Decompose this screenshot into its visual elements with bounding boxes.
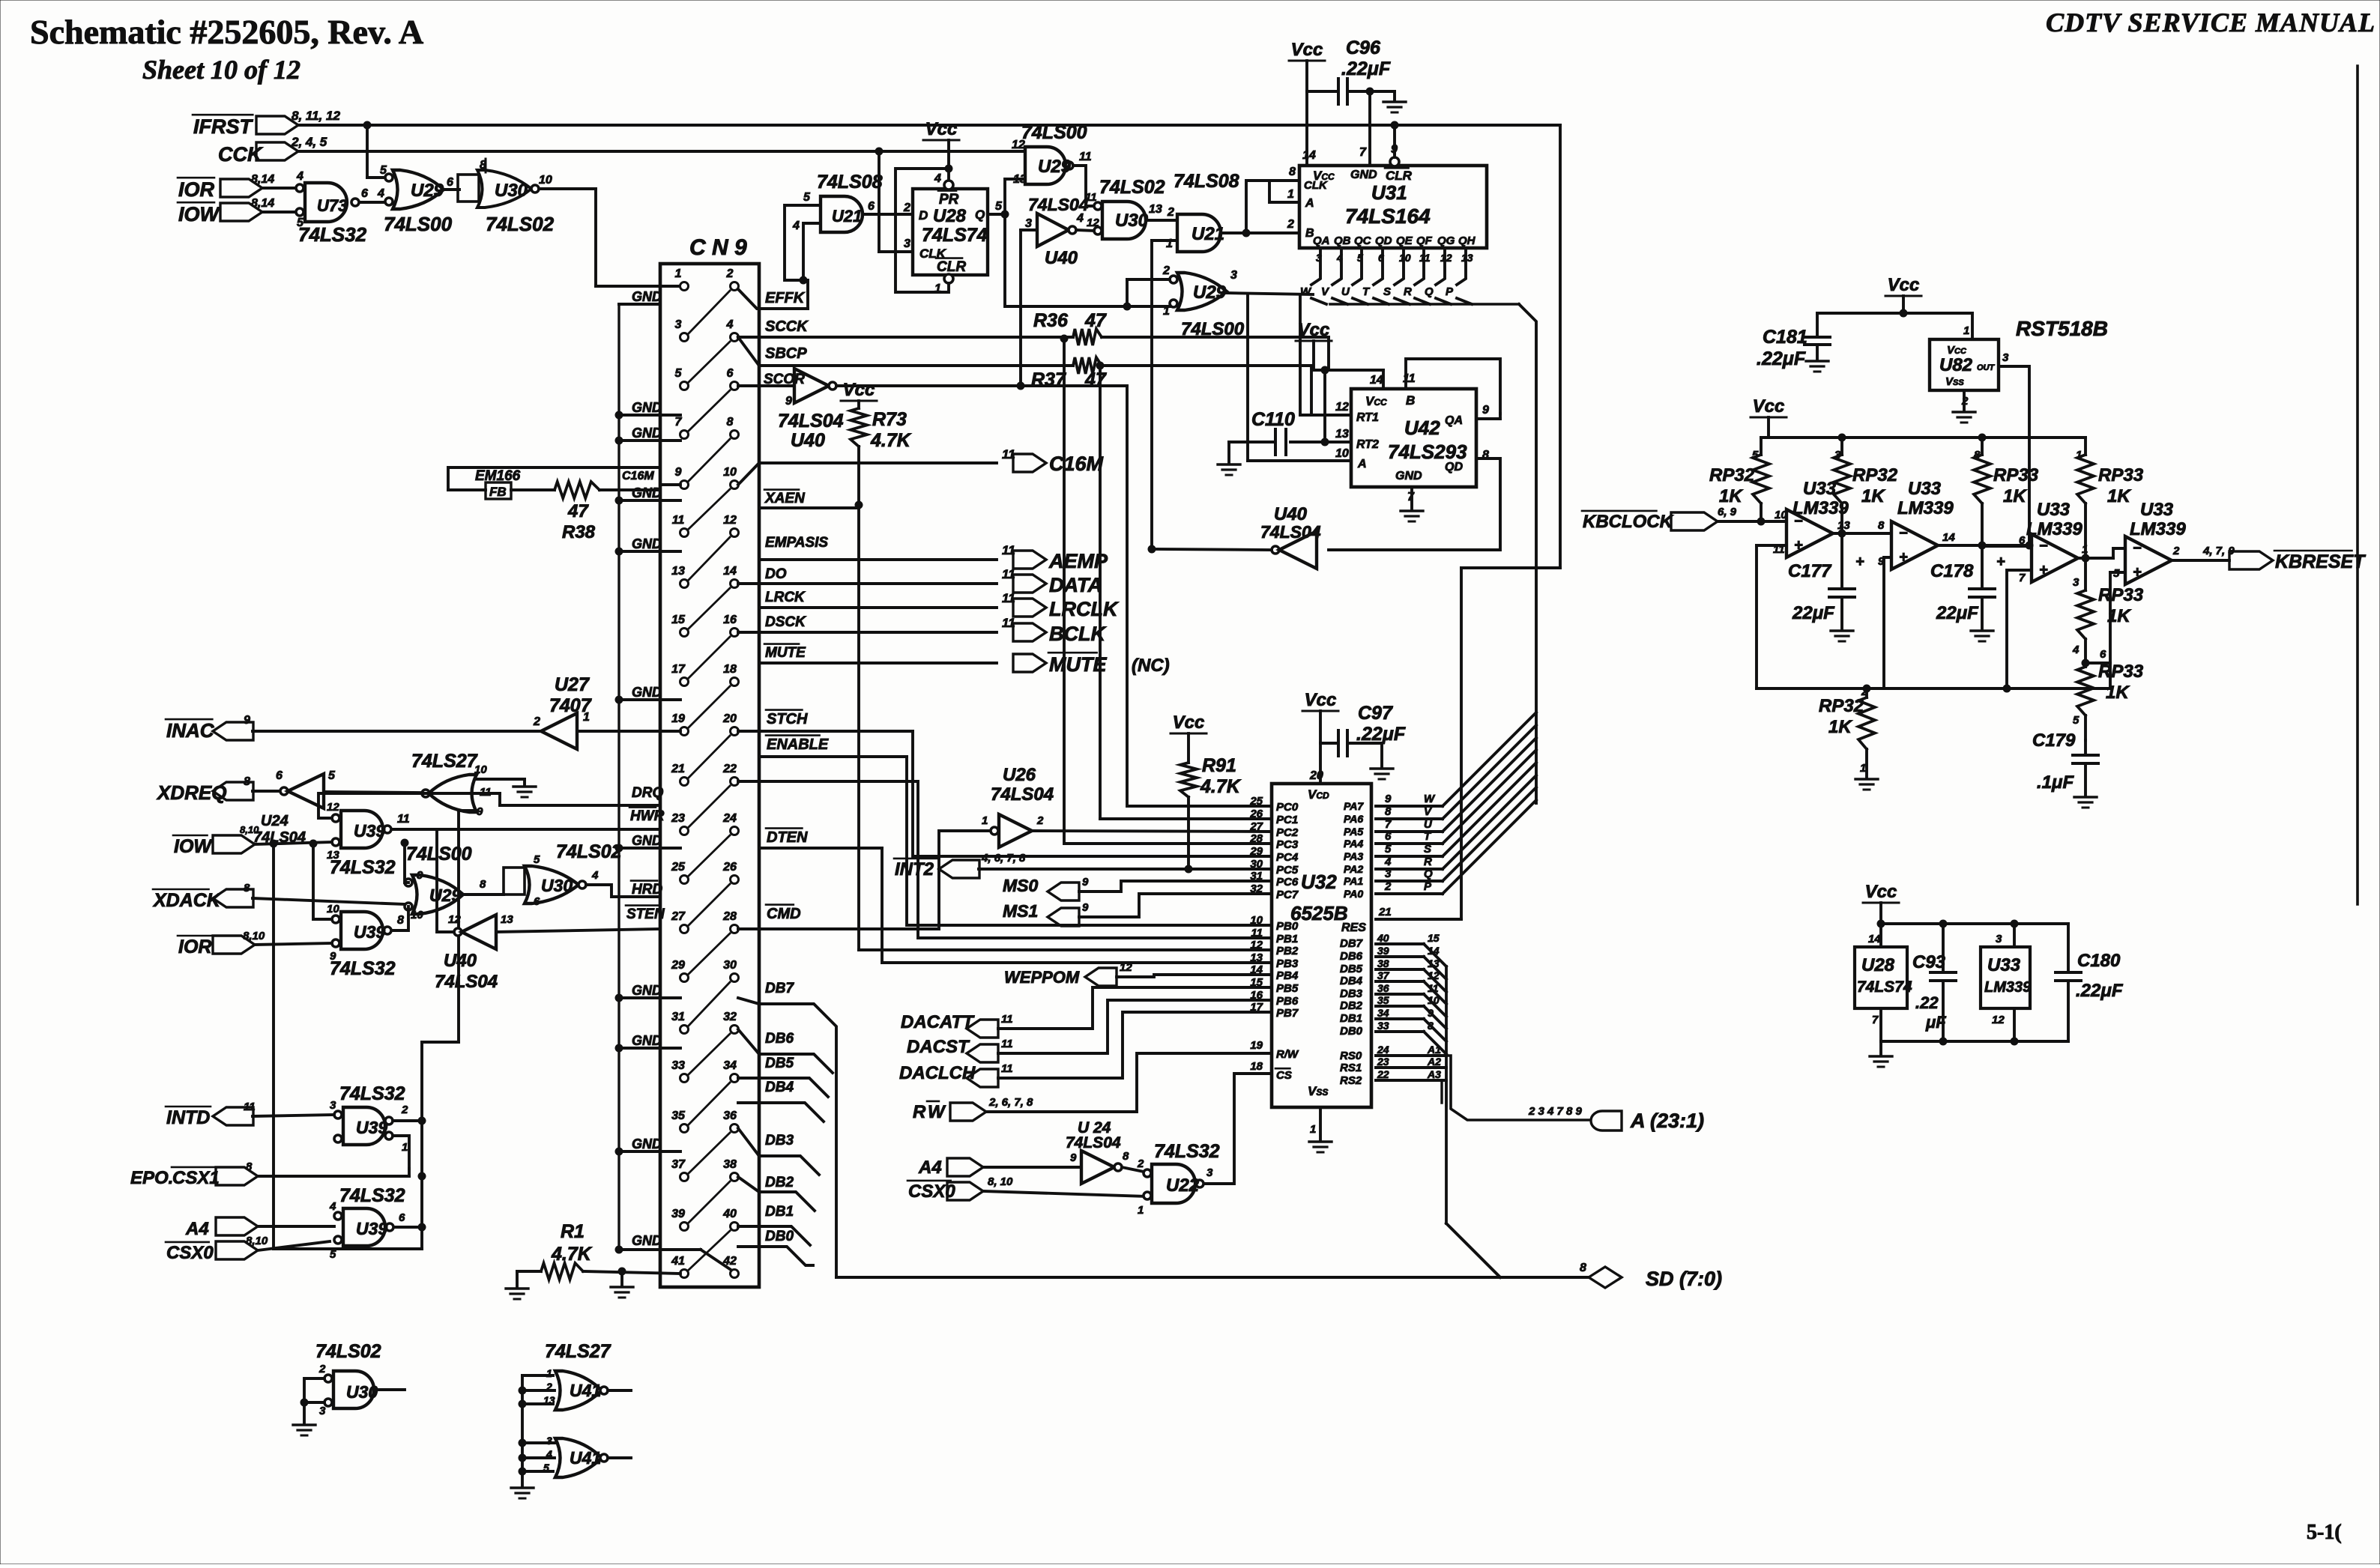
wire U30 out HRD	[586, 885, 660, 897]
U31 bus to right	[1330, 303, 1519, 306]
svg-text:CSX0: CSX0	[908, 1181, 955, 1202]
svg-text:U39: U39	[354, 922, 385, 942]
svg-text:12: 12	[1012, 139, 1025, 151]
svg-text:3: 3	[2002, 351, 2009, 364]
svg-text:C177: C177	[1788, 561, 1832, 581]
wire DACLCH PB7	[998, 1012, 1272, 1078]
svg-text:ENABLE: ENABLE	[767, 736, 829, 753]
svg-text:74LS08: 74LS08	[1174, 171, 1239, 192]
svg-text:Vcc: Vcc	[1865, 882, 1897, 902]
svg-text:5: 5	[995, 200, 1003, 213]
svg-text:74LS00: 74LS00	[1021, 122, 1087, 143]
svg-text:2, 6, 7, 8: 2, 6, 7, 8	[988, 1096, 1033, 1109]
svg-text:14: 14	[1942, 531, 1955, 544]
svg-text:C110: C110	[1251, 409, 1295, 430]
svg-text:PA1: PA1	[1344, 875, 1363, 887]
gate U73 74LS32	[305, 183, 347, 222]
svg-text:4.7K: 4.7K	[1200, 776, 1242, 797]
svg-text:IOR: IOR	[178, 178, 215, 201]
CN9 pin22 wire to U32 PB1	[738, 781, 1272, 938]
svg-text:74LS27: 74LS27	[411, 751, 478, 772]
wire comp4 out KBRESET	[2172, 559, 2229, 562]
inverter U40 74LS04 (SCOR)	[794, 369, 829, 403]
svg-text:4.7K: 4.7K	[870, 430, 912, 451]
svg-text:13: 13	[1428, 957, 1440, 969]
svg-text:30: 30	[723, 959, 737, 972]
svg-text:3: 3	[2073, 576, 2080, 589]
svg-text:.22μF: .22μF	[1757, 348, 1806, 369]
wire divider to comp4 plus	[2085, 662, 2110, 665]
svg-text:SD (7:0): SD (7:0)	[1646, 1268, 1722, 1290]
svg-text:SCCK: SCCK	[765, 318, 809, 335]
svg-text:+: +	[1899, 549, 1908, 566]
svg-text:U30: U30	[495, 181, 528, 201]
svg-text:U22: U22	[1166, 1175, 1200, 1196]
svg-text:PA3: PA3	[1344, 850, 1363, 862]
svg-text:HWR: HWR	[630, 808, 665, 824]
wire ENABLE to U32 PB0	[907, 757, 1272, 925]
svg-text:RT1: RT1	[1356, 411, 1379, 424]
wire U40 inverter input	[1021, 228, 1037, 231]
svg-text:QB: QB	[1334, 234, 1351, 247]
svg-text:IOR: IOR	[178, 936, 211, 957]
svg-text:GND: GND	[632, 685, 662, 700]
svg-text:KBRESET: KBRESET	[2275, 551, 2367, 572]
svg-text:20: 20	[1309, 769, 1323, 782]
svg-text:37: 37	[671, 1158, 686, 1171]
svg-text:4: 4	[1384, 856, 1392, 868]
svg-text:11: 11	[672, 514, 685, 527]
svg-text:24: 24	[1377, 1044, 1389, 1056]
wire comp3 out to comp4 minus	[2113, 548, 2125, 558]
svg-text:DB2: DB2	[765, 1175, 794, 1190]
svg-text:74LS04: 74LS04	[435, 972, 498, 992]
svg-text:5: 5	[803, 191, 811, 204]
wire U40 out to U41 loop	[437, 829, 454, 932]
svg-text:1: 1	[1963, 324, 1969, 337]
svg-text:7: 7	[1359, 146, 1367, 159]
svg-text:11: 11	[1001, 1038, 1013, 1050]
svg-text:EMPASIS: EMPASIS	[765, 535, 828, 551]
svg-text:12: 12	[448, 913, 461, 926]
svg-text:U26: U26	[1003, 765, 1036, 785]
svg-text:PB7: PB7	[1276, 1007, 1299, 1020]
U41 pin10 to ground	[477, 778, 525, 781]
wire R73 to XAEN	[855, 501, 863, 509]
svg-text:2: 2	[903, 202, 910, 214]
wire comp4 plus via divider	[2110, 571, 2125, 574]
svg-text:GND: GND	[632, 289, 662, 304]
wire to U31 CLK and A	[1246, 181, 1297, 233]
svg-text:HRD: HRD	[632, 882, 662, 897]
svg-text:D: D	[919, 208, 928, 223]
svg-text:6: 6	[2100, 648, 2106, 661]
wire IFRST drop to U29 pin5	[366, 125, 369, 178]
svg-text:PC3: PC3	[1276, 838, 1299, 851]
svg-text:PA0: PA0	[1344, 888, 1363, 900]
wire R73 bus to U32 PB2	[859, 948, 1272, 951]
svg-text:2 3 4 7 8 9: 2 3 4 7 8 9	[1528, 1105, 1583, 1118]
svg-text:Sheet 10 of 12: Sheet 10 of 12	[142, 55, 300, 85]
svg-text:+: +	[2039, 562, 2048, 578]
U39#2 pin10 feed	[313, 844, 332, 919]
svg-text:13: 13	[1013, 173, 1027, 186]
wire IFRST net	[298, 124, 1560, 127]
svg-text:20: 20	[722, 712, 737, 725]
svg-text:19: 19	[1250, 1039, 1263, 1052]
svg-text:R: R	[913, 1102, 926, 1122]
svg-text:13: 13	[671, 565, 685, 578]
wire INTD gate outs	[393, 1119, 422, 1122]
wire U29b pin2	[1127, 278, 1170, 281]
svg-text:R36: R36	[1033, 310, 1069, 331]
svg-text:11: 11	[1001, 1013, 1013, 1026]
svg-text:3: 3	[1206, 1166, 1213, 1179]
svg-text:35: 35	[1377, 994, 1389, 1006]
svg-text:5: 5	[380, 164, 387, 177]
svg-text:32: 32	[723, 1011, 737, 1023]
svg-text:2: 2	[1287, 218, 1294, 231]
svg-text:8: 8	[397, 914, 404, 927]
svg-text:34: 34	[1377, 1007, 1389, 1019]
wire KBCLOCK	[1718, 520, 1786, 523]
svg-text:22μF: 22μF	[1936, 603, 1979, 623]
svg-text:74LS74: 74LS74	[1857, 978, 1912, 996]
wire SCOR inverted	[836, 384, 1021, 387]
svg-text:R: R	[1404, 285, 1412, 298]
svg-text:1K: 1K	[1719, 486, 1743, 506]
wire U40 out to U30 pin12	[1076, 230, 1094, 231]
wire U28 Q out	[988, 213, 1005, 216]
U82 ground	[1963, 390, 1966, 411]
svg-text:Vcc: Vcc	[1305, 690, 1337, 710]
svg-text:4: 4	[296, 170, 303, 183]
svg-text:R: R	[1424, 856, 1432, 868]
svg-text:2: 2	[1167, 206, 1174, 219]
svg-text:DB0: DB0	[765, 1229, 794, 1244]
right page border	[2356, 66, 2359, 904]
svg-text:4: 4	[591, 869, 599, 882]
svg-text:U29: U29	[411, 181, 444, 201]
svg-text:PR: PR	[939, 192, 959, 208]
svg-text:GND: GND	[1350, 169, 1377, 181]
svg-text:9: 9	[1082, 901, 1089, 914]
wire U39 out HWR	[392, 828, 660, 831]
svg-text:−: −	[1899, 525, 1908, 542]
svg-text:SBCP: SBCP	[765, 345, 807, 362]
svg-text:3: 3	[330, 1099, 336, 1112]
wire U41 to U24	[324, 792, 422, 793]
svg-text:KBCLOCK: KBCLOCK	[1583, 512, 1674, 532]
wire U29 out to U30	[444, 188, 459, 191]
ground below R1	[620, 1271, 623, 1286]
svg-text:RP33: RP33	[2098, 465, 2144, 485]
svg-text:U29: U29	[1038, 157, 1072, 177]
svg-text:74LS32: 74LS32	[298, 223, 367, 246]
wire W net to U42 A	[1246, 294, 1249, 461]
CN9 internal links	[689, 291, 730, 333]
svg-text:16: 16	[723, 614, 737, 626]
svg-text:RP33: RP33	[1993, 465, 2039, 485]
svg-text:4, 6, 7, 8: 4, 6, 7, 8	[981, 852, 1026, 865]
decoupling rail top	[1881, 922, 2068, 925]
svg-text:DB5: DB5	[1340, 963, 1363, 975]
svg-text:7: 7	[2019, 572, 2026, 584]
svg-text:PA7: PA7	[1344, 800, 1364, 812]
svg-text:11: 11	[397, 813, 410, 826]
wire IOR	[255, 943, 332, 945]
output flag KBRESET	[2229, 551, 2273, 569]
svg-text:11: 11	[1251, 927, 1263, 939]
svg-text:QG: QG	[1437, 234, 1455, 247]
svg-text:U40: U40	[791, 430, 825, 451]
svg-text:8: 8	[1878, 519, 1885, 532]
svg-text:MS1: MS1	[1003, 901, 1038, 921]
svg-text:Q: Q	[1425, 285, 1434, 298]
output flag MUTE (NC)	[1013, 654, 1046, 672]
wire QA out	[1476, 417, 1500, 420]
wire STEN	[496, 929, 660, 932]
svg-text:C97: C97	[1358, 703, 1393, 724]
svg-text:QA: QA	[1313, 234, 1330, 247]
wire U39#2 out	[392, 906, 408, 930]
svg-text:C93: C93	[1912, 952, 1946, 972]
svg-text:DB3: DB3	[765, 1133, 794, 1148]
svg-text:4: 4	[1076, 212, 1084, 225]
svg-text:6: 6	[276, 769, 283, 782]
svg-text:W: W	[1300, 285, 1312, 298]
svg-text:GND: GND	[1395, 470, 1422, 482]
wire DACATT PB5	[998, 987, 1272, 1029]
svg-text:MS0: MS0	[1003, 876, 1039, 895]
resistor R91 4.7K	[1180, 763, 1197, 797]
svg-text:24: 24	[722, 812, 737, 825]
svg-text:6: 6	[534, 895, 540, 908]
svg-text:14: 14	[1370, 374, 1383, 387]
svg-text:GND: GND	[632, 485, 662, 500]
svg-text:40: 40	[1377, 932, 1389, 944]
svg-text:1K: 1K	[2107, 486, 2131, 506]
wire CMD to U26 inverter	[939, 831, 991, 929]
svg-text:37: 37	[1377, 969, 1390, 981]
svg-text:17: 17	[671, 663, 686, 676]
svg-text:PB5: PB5	[1276, 982, 1299, 995]
svg-text:A4: A4	[185, 1219, 209, 1239]
svg-text:27: 27	[671, 910, 686, 923]
wire U21 out to U28 D	[863, 213, 913, 216]
svg-text:Vcc: Vcc	[843, 380, 875, 400]
wire to U31 B	[1274, 231, 1297, 234]
svg-text:U82: U82	[1939, 355, 1973, 375]
svg-text:74LS32: 74LS32	[330, 958, 396, 979]
svg-text:PB1: PB1	[1276, 933, 1298, 945]
svg-text:QH: QH	[1458, 234, 1476, 247]
svg-text:MUTE: MUTE	[765, 645, 806, 661]
svg-text:1: 1	[675, 267, 682, 280]
svg-text:DB7: DB7	[1340, 937, 1363, 950]
svg-text:U40: U40	[1045, 248, 1078, 268]
svg-text:4.7K: 4.7K	[551, 1244, 593, 1265]
svg-text:GND: GND	[632, 1033, 662, 1048]
svg-text:Vcc: Vcc	[925, 119, 958, 139]
gate U29 74LS00	[393, 170, 444, 209]
A bus to flag	[1446, 1056, 1589, 1120]
svg-text:1: 1	[2082, 543, 2088, 556]
wire CCK net	[298, 150, 1025, 153]
svg-text:6: 6	[447, 176, 453, 189]
resistor R73 4.7K	[851, 408, 867, 447]
wire QD out	[1329, 458, 1500, 550]
svg-text:74LS32: 74LS32	[330, 857, 396, 878]
wire IOW to U73	[262, 211, 296, 214]
wire to U32 PC0	[1127, 386, 1272, 806]
svg-text:PC5: PC5	[1276, 864, 1299, 877]
svg-text:A (23:1): A (23:1)	[1630, 1110, 1704, 1132]
svg-text:DB2: DB2	[1340, 999, 1363, 1012]
CN9 pin circles	[680, 282, 689, 291]
svg-text:GND: GND	[632, 536, 662, 551]
svg-text:3: 3	[319, 1405, 326, 1417]
svg-text:47: 47	[567, 501, 589, 521]
wire U29 out to U30	[1073, 166, 1094, 206]
svg-text:9: 9	[1428, 1007, 1434, 1019]
CN9 GND bottom wire	[615, 1246, 623, 1254]
CN9 ground bus	[617, 304, 620, 1250]
wire DACST PB6	[998, 1000, 1272, 1053]
svg-text:4: 4	[934, 172, 941, 185]
wire U22 out to CS	[1204, 1074, 1272, 1184]
svg-text:25: 25	[1249, 795, 1263, 808]
wire U39#4 out	[394, 1226, 422, 1229]
wire INAC	[253, 730, 541, 733]
svg-text:6: 6	[361, 187, 368, 200]
svg-text:3: 3	[1996, 933, 2002, 945]
svg-text:74LS02: 74LS02	[556, 841, 622, 862]
svg-text:C96: C96	[1346, 37, 1381, 58]
svg-text:U42: U42	[1404, 417, 1440, 439]
svg-text:5: 5	[330, 1248, 336, 1261]
svg-text:1: 1	[1138, 1204, 1144, 1217]
svg-text:PA5: PA5	[1344, 826, 1363, 838]
svg-text:QD: QD	[1375, 234, 1392, 247]
svg-text:13: 13	[1149, 203, 1162, 216]
svg-text:74LS00: 74LS00	[1181, 319, 1245, 339]
svg-text:9: 9	[675, 466, 682, 479]
svg-text:1: 1	[546, 1367, 552, 1379]
svg-text:23: 23	[671, 812, 685, 825]
svg-text:74LS02: 74LS02	[1099, 177, 1165, 198]
svg-text:U: U	[1341, 285, 1350, 298]
svg-text:RP32: RP32	[1852, 465, 1898, 485]
svg-text:A2: A2	[1427, 1056, 1441, 1068]
svg-text:8: 8	[480, 878, 486, 891]
svg-text:13: 13	[501, 913, 513, 926]
svg-text:22: 22	[1377, 1068, 1389, 1080]
wire GND U31 pin7	[1368, 91, 1371, 163]
svg-text:.22: .22	[1915, 993, 1939, 1012]
wire comp2 + from feedback rail	[1884, 557, 1891, 688]
svg-text:74LS04: 74LS04	[1260, 522, 1321, 542]
svg-text:.1μF: .1μF	[2037, 772, 2074, 793]
svg-text:10: 10	[1250, 914, 1263, 927]
wire RW to R/W pin	[986, 1053, 1272, 1112]
svg-text:12: 12	[1250, 939, 1263, 951]
svg-text:Vcc: Vcc	[1753, 396, 1785, 417]
svg-text:U40: U40	[444, 951, 477, 971]
svg-text:INAC: INAC	[166, 719, 215, 742]
svg-text:34: 34	[723, 1059, 737, 1072]
svg-text:23: 23	[1377, 1056, 1389, 1068]
svg-text:8: 8	[1289, 166, 1296, 178]
svg-text:LM339: LM339	[2130, 519, 2186, 539]
svg-text:Q: Q	[975, 208, 985, 222]
svg-text:12: 12	[1087, 217, 1099, 229]
svg-text:CSX0: CSX0	[166, 1243, 214, 1263]
svg-text:CLK: CLK	[1304, 179, 1328, 192]
svg-text:10: 10	[539, 174, 552, 187]
svg-text:3: 3	[904, 237, 910, 250]
wire MS0 to PC6	[1079, 881, 1272, 892]
svg-text:74LS02: 74LS02	[315, 1341, 381, 1362]
spare gate ground bus	[521, 1375, 524, 1486]
svg-text:STCH: STCH	[767, 711, 808, 727]
ground C96	[1393, 91, 1396, 100]
svg-text:C180: C180	[2077, 951, 2121, 971]
gate U41 74LS27 spare2	[555, 1438, 602, 1477]
svg-text:INTD: INTD	[166, 1107, 210, 1128]
svg-text:9: 9	[785, 395, 792, 408]
svg-text:C16M: C16M	[1049, 452, 1104, 475]
inverter U24 74LS04	[280, 787, 288, 795]
svg-text:U73: U73	[317, 196, 347, 215]
U42 GND	[1410, 487, 1413, 509]
svg-text:LM339: LM339	[1897, 498, 1954, 518]
svg-text:EFFK: EFFK	[765, 290, 806, 306]
svg-text:PA2: PA2	[1344, 863, 1363, 875]
svg-text:GND: GND	[632, 833, 662, 848]
svg-text:1: 1	[982, 814, 988, 827]
wire U30 out to CN9 pin1	[539, 187, 596, 190]
svg-text:U33: U33	[2037, 500, 2071, 520]
CN9 C16M output wire	[738, 463, 997, 485]
svg-text:6: 6	[1385, 830, 1392, 843]
U40 out to U21 pin1 net	[1156, 549, 1272, 550]
svg-text:8, 11, 12: 8, 11, 12	[292, 109, 340, 123]
svg-text:14: 14	[1428, 945, 1440, 957]
svg-text:GND: GND	[632, 400, 662, 415]
svg-text:18: 18	[723, 663, 737, 676]
svg-text:RST518B: RST518B	[2016, 317, 2108, 340]
svg-text:+: +	[1855, 554, 1864, 570]
wire WEPROM PB4	[1117, 975, 1272, 977]
svg-text:74LS04: 74LS04	[778, 411, 844, 432]
svg-text:PA6: PA6	[1344, 813, 1363, 825]
svg-text:U30: U30	[1115, 211, 1149, 231]
wire U73 out to U29	[360, 201, 387, 204]
svg-text:3: 3	[1230, 269, 1237, 282]
wire PC3 long	[1064, 340, 1272, 844]
svg-text:6: 6	[868, 200, 875, 213]
svg-text:2: 2	[1036, 814, 1044, 827]
svg-text:33: 33	[671, 1059, 685, 1072]
svg-text:3: 3	[675, 318, 682, 331]
svg-text:.22μF: .22μF	[2076, 981, 2124, 1001]
svg-text:QA: QA	[1445, 414, 1463, 427]
svg-text:CSX1: CSX1	[172, 1168, 220, 1188]
wire A4	[258, 1225, 334, 1228]
svg-text:8: 8	[244, 775, 250, 788]
wire DTEN to U32 PB3	[882, 848, 1272, 963]
